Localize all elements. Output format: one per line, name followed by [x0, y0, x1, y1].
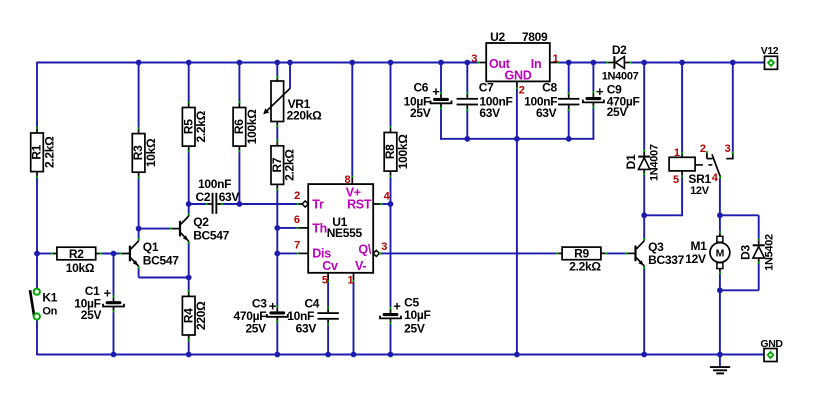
- resistor R7: [270, 140, 297, 191]
- svg-text:7809: 7809: [522, 30, 548, 44]
- U2 out pin stub: [478, 61, 487, 63]
- U1 pin 8 stub: [351, 176, 353, 185]
- transistor Q2: [170, 213, 230, 244]
- wire C9 to ground bus: [592, 107, 594, 139]
- svg-text:63V: 63V: [536, 106, 557, 120]
- svg-text:2: 2: [519, 85, 525, 97]
- resistor R1: [30, 127, 57, 178]
- svg-text:BC547: BC547: [193, 228, 229, 242]
- wire Q1 emitter to R4 node: [139, 277, 189, 279]
- wire Q2 base: [139, 228, 171, 230]
- svg-text:Th: Th: [312, 222, 327, 236]
- svg-text:Cv: Cv: [322, 259, 338, 273]
- svg-text:5: 5: [673, 174, 679, 186]
- wire coil pin5 to node: [644, 214, 682, 216]
- svg-text:In: In: [531, 57, 542, 71]
- wire left rail R1 to K1: [36, 176, 38, 289]
- diode D3: [753, 239, 765, 264]
- svg-text:5: 5: [322, 275, 328, 287]
- wire R8 column top: [390, 63, 392, 129]
- wire R6 to Tr line: [238, 151, 240, 204]
- svg-text:6: 6: [294, 214, 300, 226]
- svg-text:10kΩ: 10kΩ: [66, 261, 95, 275]
- svg-text:2.2kΩ: 2.2kΩ: [42, 136, 56, 168]
- wire Th line: [277, 227, 297, 229]
- U2 pin numbers: [471, 53, 558, 97]
- resistor R4: [181, 290, 208, 341]
- svg-text:Q2: Q2: [193, 215, 209, 229]
- wire lower node to ground: [719, 290, 721, 354]
- regulator U2 body: [486, 43, 550, 81]
- wire C6 column top: [440, 63, 442, 94]
- diode D2: [602, 43, 639, 83]
- svg-text:GND: GND: [760, 338, 783, 350]
- capacitor C7: [457, 81, 513, 120]
- svg-text:1: 1: [674, 147, 680, 159]
- wire C5 to bottom rail: [390, 324, 392, 355]
- svg-text:D3: D3: [738, 245, 752, 260]
- wire U2 GND to ground bus: [516, 88, 518, 138]
- svg-text:Tr: Tr: [312, 198, 324, 212]
- svg-text:M1: M1: [690, 239, 707, 253]
- svg-text:C8: C8: [542, 81, 557, 95]
- svg-text:R2: R2: [69, 247, 84, 261]
- svg-text:12V: 12V: [690, 185, 710, 197]
- capacitor C6: [404, 81, 452, 120]
- wire C4 to bottom rail: [327, 325, 329, 355]
- wire RST pin to node: [381, 203, 390, 205]
- U1 pin 3 stub: [373, 250, 381, 256]
- svg-text:Q3: Q3: [648, 240, 664, 254]
- U1 pin 1 stub: [352, 273, 354, 282]
- capacitor C8: [524, 81, 579, 120]
- svg-text:+: +: [104, 286, 112, 301]
- wire D3 bottom: [758, 263, 760, 291]
- svg-text:3: 3: [471, 53, 477, 65]
- U1 pin 6 stub: [297, 227, 309, 229]
- svg-text:+: +: [596, 84, 604, 99]
- svg-text:220kΩ: 220kΩ: [287, 108, 322, 122]
- wire R4 to bottom rail: [188, 340, 190, 355]
- wire R5 column top: [188, 63, 190, 104]
- wire relay pin1 column: [681, 63, 683, 154]
- wire Q output to R9: [380, 252, 557, 254]
- svg-text:12V: 12V: [685, 252, 706, 266]
- wire VR1 column top: [276, 63, 278, 77]
- svg-text:25V: 25V: [81, 308, 102, 322]
- capacitor C1: [74, 284, 124, 322]
- wire ground bus: [440, 138, 594, 140]
- svg-text:GND: GND: [505, 69, 532, 83]
- wire top rail from V+ out to U2: [37, 62, 478, 64]
- wire left rail K1 to bottom: [36, 320, 38, 356]
- svg-text:7: 7: [294, 240, 300, 252]
- wire C9 column top: [592, 63, 594, 93]
- svg-text:1N4007: 1N4007: [602, 71, 639, 83]
- wire pin1 to bottom rail: [353, 281, 355, 355]
- svg-text:C1: C1: [85, 284, 100, 298]
- wire Q3 emitter to bottom rail: [643, 268, 645, 355]
- wire pin5 to C4: [327, 281, 329, 308]
- capacitor C3: [234, 297, 288, 336]
- svg-text:3: 3: [381, 241, 387, 253]
- resistor R5: [181, 101, 208, 152]
- wire R3 to Q1 collector node: [138, 177, 140, 229]
- wire C1 to bottom rail: [113, 312, 115, 355]
- svg-text:NE555: NE555: [327, 226, 363, 240]
- svg-text:25V: 25V: [404, 322, 425, 336]
- svg-text:100kΩ: 100kΩ: [245, 109, 259, 144]
- svg-text:V12: V12: [761, 45, 779, 57]
- svg-text:+: +: [432, 84, 440, 99]
- svg-text:100kΩ: 100kΩ: [396, 134, 410, 169]
- svg-text:C6: C6: [413, 81, 428, 95]
- wire top rail D2 to V12: [631, 62, 765, 64]
- label D1: [624, 154, 638, 169]
- wire motor node to D3: [720, 214, 759, 216]
- wire C8 to ground bus: [568, 110, 570, 139]
- transistor Q1: [120, 238, 180, 269]
- U2 in pin stub: [550, 61, 559, 63]
- wire VR1 to R7: [276, 127, 278, 142]
- svg-text:1N4007: 1N4007: [648, 144, 660, 181]
- svg-text:3: 3: [725, 143, 731, 155]
- capacitor C2: [196, 177, 240, 214]
- wire C1 column: [113, 254, 115, 297]
- wire VR1 wiper column: [289, 63, 291, 89]
- wire D1 to coil node: [643, 174, 645, 215]
- svg-text:2.2kΩ: 2.2kΩ: [569, 259, 601, 273]
- wire Q3 collector up: [643, 215, 645, 240]
- label D1 value: [648, 144, 660, 181]
- resistor R2: [51, 247, 102, 275]
- svg-text:M: M: [716, 247, 725, 259]
- transistor Q3: [625, 238, 684, 269]
- svg-text:1N5402: 1N5402: [763, 234, 775, 271]
- U1 pin 5 stub: [327, 273, 329, 282]
- wire Q2 collector: [188, 204, 190, 215]
- U1 pin 2 stub: [297, 201, 309, 207]
- potentiometer VR1: [263, 76, 322, 127]
- svg-text:K1: K1: [42, 290, 57, 304]
- wire Tr line C2 to pin2: [222, 203, 297, 205]
- wire R6 column top: [238, 63, 240, 104]
- U1 labels: [312, 185, 372, 272]
- svg-text:Q\: Q\: [358, 243, 371, 257]
- svg-text:2: 2: [700, 143, 706, 155]
- U2 labels: [489, 30, 548, 82]
- capacitor C9: [583, 83, 640, 119]
- wire ground bus to bottom rail: [516, 139, 518, 355]
- wire D1 column top: [643, 63, 645, 152]
- wire C3 to bottom rail: [276, 322, 278, 355]
- wire top rail U2 to D2: [558, 62, 607, 64]
- ground symbol: [710, 355, 730, 374]
- wire Tr line left: [189, 203, 207, 205]
- wire relay pin3 column: [732, 63, 734, 153]
- wire pin8 column: [351, 63, 353, 177]
- svg-text:+: +: [269, 299, 277, 314]
- label D3 value: [763, 234, 775, 271]
- svg-text:D2: D2: [612, 43, 627, 57]
- resistor R8: [383, 126, 410, 177]
- svg-text:63V: 63V: [479, 106, 500, 120]
- svg-text:2.2kΩ: 2.2kΩ: [194, 110, 208, 142]
- svg-text:C2: C2: [196, 190, 211, 204]
- svg-text:BC547: BC547: [143, 253, 179, 267]
- svg-text:2.2kΩ: 2.2kΩ: [283, 149, 297, 181]
- wire left rail: [36, 62, 38, 129]
- wire D3 column top: [758, 215, 760, 240]
- op-amp U1 body: [308, 184, 373, 273]
- relay SR1: [669, 143, 734, 197]
- U2 gnd pin stub: [516, 81, 518, 89]
- wire RST node to C5: [390, 204, 392, 308]
- svg-text:BC337: BC337: [648, 253, 684, 267]
- resistor R3: [131, 127, 158, 178]
- wire R8 to RST node: [390, 175, 392, 204]
- wire C8 column top: [568, 63, 570, 94]
- terminal GND: [760, 338, 783, 362]
- wire R2 from left rail: [37, 253, 52, 255]
- svg-text:V-: V-: [355, 259, 366, 273]
- switch K1: [30, 289, 58, 320]
- svg-text:25V: 25V: [245, 321, 266, 335]
- wire Q1 collector: [138, 229, 140, 240]
- diode D1: [638, 150, 650, 175]
- capacitor C4: [287, 297, 339, 336]
- wire emitter node to R4: [188, 278, 190, 293]
- wire motor to lower node: [719, 273, 721, 290]
- wire pin4 to motor node: [719, 178, 721, 215]
- wire R5 to Tr node: [188, 151, 190, 204]
- svg-text:63V: 63V: [296, 321, 317, 335]
- svg-text:1: 1: [347, 275, 353, 287]
- wire coil pin5 down: [681, 177, 683, 217]
- svg-text:10µF: 10µF: [404, 308, 430, 322]
- svg-text:C7: C7: [479, 81, 494, 95]
- wire R2 to Q1 base: [101, 253, 121, 255]
- U1 pin numbers: [294, 174, 391, 287]
- resistor R9: [556, 247, 607, 274]
- svg-text:2: 2: [294, 190, 300, 202]
- wire R9 to Q3 base: [605, 252, 627, 254]
- svg-text:SR1: SR1: [688, 172, 711, 186]
- svg-text:10kΩ: 10kΩ: [144, 138, 158, 167]
- wire Dis line: [277, 252, 297, 254]
- wire C6 to ground bus: [440, 108, 442, 140]
- U1 pin 7 stub: [297, 252, 309, 254]
- svg-text:25V: 25V: [607, 105, 628, 119]
- wire R7 to C3: [276, 190, 278, 307]
- wire Q1 emitter down: [138, 267, 140, 277]
- terminal V12: [761, 45, 779, 69]
- wire bottom rail: [37, 354, 764, 356]
- label D3: [738, 245, 752, 260]
- svg-text:U2: U2: [490, 30, 505, 44]
- svg-text:Q1: Q1: [143, 240, 159, 254]
- wire R3 column top: [138, 63, 140, 130]
- svg-text:25V: 25V: [410, 106, 431, 120]
- resistor R6: [232, 101, 259, 152]
- wire D3 to lower node: [720, 289, 759, 291]
- svg-text:220Ω: 220Ω: [194, 301, 208, 330]
- svg-text:On: On: [42, 306, 57, 318]
- svg-text:+: +: [393, 299, 401, 314]
- capacitor C5: [380, 296, 431, 336]
- svg-text:1: 1: [552, 53, 558, 65]
- wire Q2 emitter: [188, 243, 190, 278]
- wire motor node to motor: [719, 215, 721, 232]
- svg-text:D1: D1: [624, 154, 638, 169]
- motor M1: [685, 231, 730, 274]
- wire C7 column top: [466, 63, 468, 94]
- svg-text:8: 8: [344, 174, 350, 186]
- svg-text:RST: RST: [347, 198, 372, 212]
- wire C7 to ground bus: [466, 110, 468, 139]
- U1 pin 4 stub: [373, 203, 382, 205]
- svg-text:63V: 63V: [219, 190, 240, 204]
